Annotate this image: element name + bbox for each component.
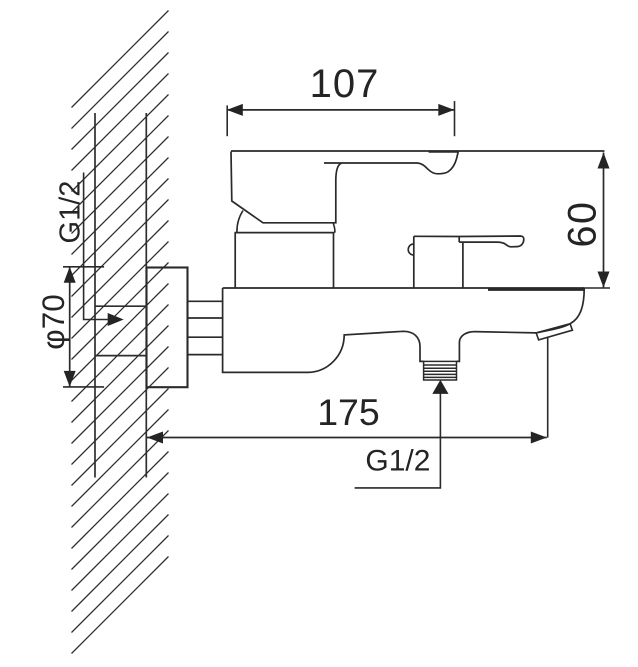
supply pipe lines <box>188 301 223 354</box>
phi70 bottom arrow <box>64 371 76 387</box>
top line over lever and body back <box>231 150 605 152</box>
dimension 107 line <box>227 109 454 111</box>
G1/2 outlet leader <box>355 393 441 488</box>
phi70 top arrow <box>64 267 76 283</box>
cartridge dome left arc <box>237 211 243 233</box>
svg-text:107: 107 <box>310 62 380 106</box>
diverter button bump <box>408 244 414 255</box>
spout end cap <box>536 324 572 340</box>
svg-text:175: 175 <box>317 391 380 433</box>
diverter lever arm <box>414 236 524 247</box>
cartridge dome right arc <box>333 223 335 233</box>
diverter knob body <box>414 236 463 288</box>
svg-text:φ70: φ70 <box>35 294 71 349</box>
dimension 175 left arrow <box>147 432 163 444</box>
lever hook top thick segment <box>429 150 458 152</box>
phi70 dimension line <box>69 267 71 387</box>
phi70 bottom extension <box>63 386 104 388</box>
wall hatch <box>72 11 169 654</box>
dimension 60 line <box>603 153 605 288</box>
body underside right of outlet <box>457 332 537 362</box>
dimension 107 right extension <box>454 101 456 136</box>
dimension 60 bottom arrow <box>598 272 610 288</box>
lever underside and hook tip <box>324 151 458 174</box>
dimension 107 right arrow <box>438 104 454 116</box>
svg-text:60: 60 <box>561 201 605 248</box>
G1/2 wall leader arrow <box>108 313 124 326</box>
shower outlet threads <box>424 361 457 380</box>
faucet body left outline <box>223 288 424 372</box>
dimension 60 top arrow <box>598 153 610 169</box>
svg-text:G1/2: G1/2 <box>55 181 87 244</box>
faucet body top edge thick segment <box>488 288 584 291</box>
lever left body <box>231 152 342 223</box>
wall surface line <box>145 113 147 478</box>
dimension 175 right extension <box>547 337 549 438</box>
in-wall fitting top <box>95 305 146 307</box>
dimension 107 left arrow <box>227 104 243 116</box>
G1/2 outlet leader arrow <box>432 380 448 394</box>
handle base <box>234 233 334 288</box>
dimension 107 left extension <box>226 105 228 136</box>
dimension 175 right arrow <box>531 432 547 444</box>
in-wall fitting bottom <box>95 355 146 357</box>
escutcheon wall plate <box>147 268 188 388</box>
faucet body right edge curve <box>537 289 584 333</box>
phi70 top extension <box>63 266 104 268</box>
dimension 60 bottom extension <box>583 287 610 289</box>
svg-text:G1/2: G1/2 <box>365 444 430 477</box>
G1/2 wall leader <box>84 173 109 320</box>
dimension 175 line <box>147 437 547 439</box>
faucet body top edge <box>223 287 585 289</box>
wall inner line <box>94 113 96 478</box>
